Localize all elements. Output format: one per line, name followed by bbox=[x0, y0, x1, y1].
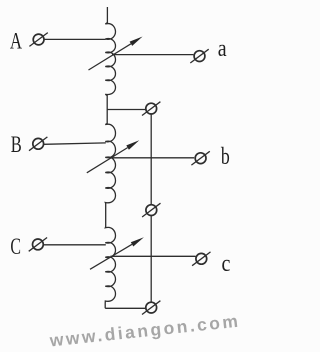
wire B terminal to coil bbox=[44, 143, 106, 144]
terminal Z (bus 3) bbox=[142, 301, 160, 315]
terminal B bbox=[29, 137, 47, 151]
terminal X (bus 1) bbox=[142, 102, 160, 116]
svg-text:a: a bbox=[218, 36, 227, 62]
svg-text:A: A bbox=[10, 29, 22, 54]
wire bus Y-Z bbox=[150, 216, 152, 303]
wire tap b bbox=[109, 157, 194, 159]
wire tap a bbox=[112, 54, 193, 56]
wiper arrow C bbox=[90, 237, 144, 269]
terminal A bbox=[29, 33, 47, 47]
terminal c bbox=[192, 252, 210, 266]
terminal a bbox=[190, 49, 208, 63]
terminal b bbox=[191, 151, 209, 165]
svg-text:c: c bbox=[222, 251, 231, 277]
wire A terminal to coil bbox=[44, 38, 105, 40]
wire tap c bbox=[110, 255, 195, 257]
svg-text:B: B bbox=[11, 132, 22, 157]
wire coil tap to bus terminal X bbox=[107, 109, 146, 111]
wire coil bottom to bus terminal Z bbox=[105, 307, 146, 309]
terminal Y (bus 2) bbox=[142, 203, 160, 217]
wire bus X-Y bbox=[150, 114, 152, 205]
terminal C bbox=[29, 238, 47, 252]
svg-text:C: C bbox=[10, 234, 21, 259]
wire C terminal to coil bbox=[44, 244, 106, 246]
wiper arrow A bbox=[89, 37, 143, 71]
svg-text:b: b bbox=[221, 144, 230, 170]
wiper arrow B bbox=[87, 140, 140, 173]
winding W1/W2/W3 (series coil column) bbox=[105, 7, 115, 308]
